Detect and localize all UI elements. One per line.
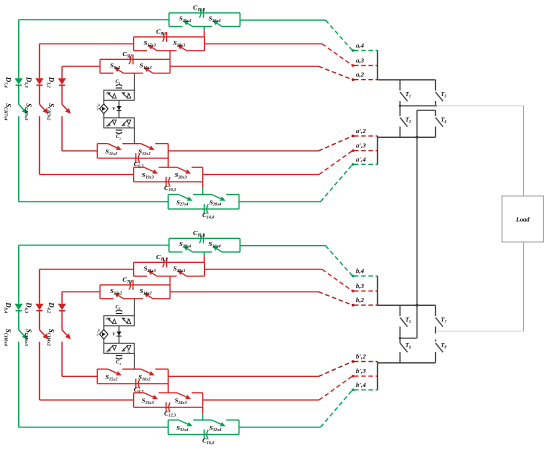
- wire: [133, 73, 135, 90]
- battery-side diode/switch diamond: [103, 326, 105, 330]
- wire (left horizontal to x3 row): [40, 43, 134, 45]
- wire (left horizontal to x2 lower row): [62, 150, 97, 152]
- wire branch D3,2: [61, 66, 63, 78]
- switch S30x4: [217, 249, 222, 252]
- dashed link node b&#8242;,4: [321, 390, 353, 427]
- switch T8: [435, 340, 437, 342]
- wire: [202, 182, 204, 188]
- wire: [39, 85, 41, 104]
- switch T4: [435, 110, 437, 116]
- wire: [39, 311, 41, 330]
- wire: [18, 311, 20, 330]
- switch S10x2: [148, 70, 153, 73]
- dashed link node b,2: [319, 292, 353, 305]
- switch S24x3: [177, 393, 186, 397]
- switch S20x3: [177, 167, 186, 171]
- wire (left horizontal to x2 row): [62, 291, 100, 293]
- svg-text:Load: Load: [515, 217, 530, 224]
- wire (x3 lower output line): [203, 399, 319, 401]
- switch-cell rectangle S25x4/S26x4: [169, 12, 240, 14]
- svg-text:a,3: a,3: [356, 58, 365, 65]
- capacitor C11,3: [163, 258, 165, 268]
- junction: [416, 304, 419, 307]
- wire (x2 lower output line): [168, 375, 318, 377]
- capacitor C13,4: [200, 8, 202, 18]
- capacitor C8,2: [135, 379, 137, 389]
- svg-text:C3: C3: [116, 305, 121, 310]
- switch-cell rectangle S17x3/S18x3: [134, 36, 205, 38]
- switch S16x2: [141, 369, 150, 373]
- switch-cell rectangle S21x3/S22x3: [134, 261, 205, 263]
- switch-cell rectangle S19x3/S20x3: [134, 166, 145, 168]
- wire: [133, 353, 135, 369]
- wire: [169, 51, 171, 60]
- wire (x2 lower output line): [168, 150, 318, 152]
- cascade wire between bridges: [416, 110, 418, 338]
- switch-cell rectangle S15x2/S16x2: [97, 368, 108, 370]
- wire (x3 output line): [205, 43, 323, 45]
- svg-text:a′,3: a′,3: [356, 143, 367, 150]
- svg-text:C2: C2: [116, 135, 121, 140]
- bus wire upper: [377, 276, 379, 305]
- switch S26x4: [217, 23, 222, 26]
- svg-text:b′,4: b′,4: [356, 382, 366, 389]
- capacitor C4: [116, 355, 122, 357]
- wire: [167, 384, 169, 393]
- wire branch D4,2: [61, 292, 63, 304]
- switch S29x4: [188, 249, 193, 252]
- wire: [133, 299, 135, 316]
- switch-cell rectangle S29x4/S30x4: [169, 237, 240, 239]
- wire: [435, 101, 437, 105]
- H-bridge top rail: [378, 79, 436, 81]
- capacitor C15,4: [200, 234, 202, 244]
- switch SCH8x4: [19, 330, 24, 336]
- wire: [202, 407, 204, 413]
- svg-text:b,3: b,3: [356, 283, 365, 290]
- switch SCH7x4: [19, 104, 24, 110]
- switch S12x2: [141, 144, 150, 148]
- svg-text:b,4: b,4: [356, 268, 364, 275]
- dashed link node b,4: [326, 246, 353, 276]
- svg-text:b′,3: b′,3: [356, 368, 367, 375]
- switch S28x4: [212, 195, 221, 199]
- switch S19x3: [144, 167, 153, 171]
- wire (left horizontal to x3 lower row): [40, 399, 134, 401]
- H-bridge mid rail (output): [400, 105, 437, 107]
- switch S11x2: [108, 144, 117, 148]
- wire: [399, 327, 401, 339]
- switch S32x4: [212, 420, 221, 424]
- capacitor C14,4: [203, 204, 205, 214]
- dashed link node a,4: [326, 20, 353, 50]
- wire (x4 lower output line): [239, 201, 321, 203]
- switch S9x2: [119, 70, 124, 73]
- dashed link node a&#8242;,4: [321, 164, 353, 201]
- wire (left horizontal to x2 lower row): [62, 375, 97, 377]
- dashed link node a&#8242;,3: [319, 151, 353, 175]
- switch S14x2: [148, 296, 153, 299]
- wire branch D8,4: [18, 245, 20, 304]
- wire (left horizontal to x4 row): [19, 19, 169, 21]
- wire (left horizontal to x2 row): [62, 65, 100, 67]
- switch S25x4: [188, 23, 193, 26]
- H-bridge bottom rail: [378, 136, 436, 138]
- switch S22x3: [182, 273, 187, 276]
- capacitor C12,3: [165, 402, 167, 412]
- wire (x2 output line): [170, 65, 319, 67]
- switch S21x3: [152, 273, 157, 276]
- wire: [203, 27, 205, 31]
- wire: [39, 116, 41, 174]
- wire (left horizontal to x3 lower row): [40, 174, 134, 176]
- svg-text:a′,4: a′,4: [356, 156, 366, 163]
- wire load bottom: [437, 330, 524, 332]
- svg-text:C1: C1: [116, 80, 121, 85]
- wire (left horizontal to x4 lower row): [19, 426, 169, 428]
- wire: [61, 85, 63, 104]
- switch-cell rectangle S11x2/S12x2: [97, 143, 108, 145]
- capacitor C5,2: [129, 55, 131, 65]
- capacitor C16,4: [203, 430, 205, 440]
- source cell bottom box: [104, 118, 135, 128]
- switch-cell rectangle S27x4/S28x4: [168, 194, 179, 196]
- wire branch D7,4: [18, 20, 20, 78]
- capacitor C10,3: [165, 177, 167, 187]
- wire (x4 output line): [240, 245, 326, 247]
- wire (x4 output line): [240, 19, 326, 21]
- wire: [61, 116, 63, 151]
- switch SCH5x3: [40, 104, 45, 110]
- diode D4,2: [58, 304, 66, 310]
- bus wire upper: [377, 51, 379, 80]
- diode D6,3: [35, 304, 43, 310]
- capacitor C1: [116, 87, 122, 89]
- dashed link node a,3: [322, 44, 353, 66]
- wire (left horizontal to x4 lower row): [19, 201, 169, 203]
- switch-cell rectangle S13x2/S14x2: [100, 284, 170, 286]
- svg-text:a,2: a,2: [356, 72, 365, 79]
- wire: [435, 327, 437, 334]
- diode D8,4: [15, 304, 23, 310]
- wire (x3 output line): [205, 268, 323, 270]
- svg-text:b′,2: b′,2: [356, 354, 367, 361]
- dashed link node b,3: [322, 269, 353, 291]
- wire: [203, 252, 205, 256]
- switch T7: [435, 305, 437, 316]
- capacitor C3: [116, 313, 122, 315]
- wire (left horizontal to x3 row): [40, 268, 134, 270]
- voltage source V: [118, 326, 120, 344]
- switch-cell rectangle S23x3/S24x3: [134, 392, 145, 394]
- wire: [39, 342, 41, 400]
- switch S17x3: [152, 48, 157, 51]
- wire: [169, 276, 171, 285]
- dashed link node a&#8242;,2: [319, 136, 353, 151]
- capacitor C2: [116, 129, 122, 131]
- switch T2: [399, 106, 401, 116]
- wire load top: [437, 105, 524, 107]
- wire: [18, 342, 20, 428]
- wire: [18, 116, 20, 202]
- capacitor C6,2: [135, 153, 137, 163]
- dashed link node b&#8242;,3: [319, 376, 353, 400]
- switch-cell rectangle S9x2/S10x2: [100, 58, 170, 60]
- switch SCH6x3: [40, 330, 45, 336]
- wire branch D6,3: [39, 269, 41, 303]
- switch S23x3: [144, 393, 153, 397]
- voltage source V: [118, 100, 120, 118]
- cascade stub wire: [400, 337, 417, 339]
- switch S15x2: [108, 369, 117, 373]
- junction: [416, 136, 419, 139]
- wire: [61, 311, 63, 330]
- H-bridge bottom rail: [378, 362, 436, 364]
- wire (x2 output line): [170, 291, 319, 293]
- wire branch D5,3: [39, 44, 41, 78]
- diode D5,3: [35, 78, 43, 84]
- bus wire lower: [377, 362, 379, 390]
- cascade stub wire: [417, 109, 436, 111]
- switch S18x3: [182, 48, 187, 51]
- capacitor C7,2: [129, 280, 131, 290]
- wire: [18, 85, 20, 104]
- capacitor C9,3: [163, 32, 165, 42]
- switch S27x4: [179, 195, 188, 199]
- switch T6: [399, 338, 401, 343]
- battery-side diode/switch diamond: [103, 100, 105, 104]
- switch SCH4x2: [62, 330, 67, 336]
- switch-cell rectangle S31x4/S32x4: [168, 419, 179, 421]
- switch T3: [435, 80, 437, 91]
- dashed link node b&#8242;,2: [319, 362, 353, 377]
- dashed link node a,2: [319, 66, 353, 79]
- switch SCH3x2: [62, 104, 67, 110]
- switch T5: [399, 305, 401, 316]
- svg-text:a,4: a,4: [356, 43, 364, 50]
- diode D3,2: [58, 78, 66, 84]
- wire (x3 lower output line): [203, 174, 319, 176]
- wire (x4 lower output line): [239, 426, 321, 428]
- source cell bottom box: [104, 343, 135, 353]
- wire: [167, 158, 169, 167]
- switch S13x2: [119, 296, 124, 299]
- switch S31x4: [179, 420, 188, 424]
- svg-text:C4: C4: [116, 360, 121, 365]
- diode D7,4: [15, 78, 23, 84]
- source cell top box: [104, 316, 135, 326]
- svg-text:b,2: b,2: [356, 297, 365, 304]
- wire (left horizontal to x4 row): [19, 244, 169, 246]
- source cell top box: [104, 90, 135, 100]
- switch T1: [399, 80, 401, 91]
- wire: [133, 128, 135, 144]
- load box: [502, 196, 544, 242]
- wire: [399, 101, 401, 106]
- bus wire lower: [377, 136, 379, 164]
- wire: [61, 342, 63, 377]
- H-bridge top rail: [378, 304, 436, 306]
- svg-text:a′,2: a′,2: [356, 128, 367, 135]
